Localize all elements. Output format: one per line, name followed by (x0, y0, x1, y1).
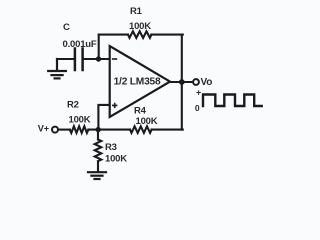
svg-text:100K: 100K (136, 116, 158, 127)
capacitor C (75, 49, 83, 71)
terminal Vo (open circle) (193, 79, 199, 85)
wire R1 top left segment (99, 34, 128, 36)
svg-text:V+: V+ (38, 124, 49, 134)
svg-text:100K: 100K (129, 21, 151, 32)
plus sign (non-inverting input) (113, 104, 117, 108)
svg-text:+: + (196, 87, 201, 97)
wire node A to non-inverting input (98, 105, 109, 130)
ground (left, at C) (48, 59, 66, 78)
wire right vertical feedback (output column) (181, 35, 183, 130)
junction node at output (179, 79, 185, 85)
minus sign (inverting input) (113, 58, 117, 60)
svg-text:R4: R4 (134, 105, 147, 116)
junction node at C / inverting input (96, 56, 101, 61)
wire R2 to node A (88, 129, 130, 131)
svg-text:R1: R1 (130, 6, 143, 17)
op-amp U1 1/2 LM358 (110, 46, 170, 117)
wire C to inverting input (84, 58, 110, 60)
svg-text:0: 0 (195, 103, 200, 113)
resistor R2 (70, 126, 89, 133)
wire ground to C (57, 58, 74, 60)
svg-text:0.001uF: 0.001uF (63, 39, 97, 50)
ground (bottom, at R3) (88, 172, 106, 179)
wire R3 to ground (97, 162, 99, 171)
svg-text:1/2 LM358: 1/2 LM358 (114, 77, 161, 88)
svg-text:100K: 100K (69, 114, 91, 125)
svg-text:Vo: Vo (201, 77, 213, 88)
svg-text:R2: R2 (67, 100, 79, 111)
resistor R3 (95, 140, 102, 162)
wire op-amp output (170, 81, 193, 83)
wire node A to R3 (97, 130, 99, 140)
square wave symbol (203, 95, 262, 107)
resistor R1 (128, 31, 151, 38)
terminal V+ (open circle) (52, 127, 58, 133)
junction node A (R2/R3/R4) (96, 127, 101, 132)
svg-text:100K: 100K (105, 153, 127, 164)
wire R1 top right segment (151, 34, 182, 36)
svg-text:C: C (63, 22, 70, 33)
wire R4 to feedback column (152, 129, 183, 131)
wire V+ to R2 (58, 129, 70, 131)
resistor R4 (130, 126, 152, 133)
wire left vertical from R1 to C node (98, 35, 100, 59)
svg-text:R3: R3 (105, 142, 117, 153)
